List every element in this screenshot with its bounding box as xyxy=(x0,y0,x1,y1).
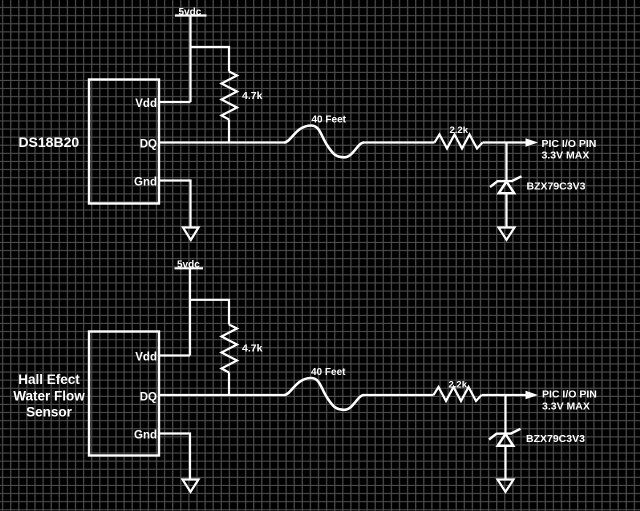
svg-text:DS18B20: DS18B20 xyxy=(18,134,79,150)
wire resistor bottom to DQ xyxy=(228,120,230,143)
svg-text:40 Feet: 40 Feet xyxy=(312,115,347,126)
wire cable to resistor 2.2k (bottom) xyxy=(364,394,434,396)
wire junction down to zener (bottom) xyxy=(504,395,506,434)
zener diode BZX79C3V3 (bottom) triangle xyxy=(498,434,514,446)
zener diode BZX79C3V3 (top) cathode bar xyxy=(490,176,522,187)
arrow output to PIC (top) xyxy=(526,138,539,146)
svg-text:2.2k: 2.2k xyxy=(449,380,468,391)
svg-text:5vdc: 5vdc xyxy=(177,260,200,271)
wire resistor bottom to DQ (bottom) xyxy=(228,373,230,396)
ground (bottom right) xyxy=(498,480,514,492)
svg-text:BZX79C3V3: BZX79C3V3 xyxy=(526,433,585,445)
wire Gnd pin xyxy=(159,181,191,228)
svg-text:5vdc: 5vdc xyxy=(179,7,202,18)
wire DQ pin to cable xyxy=(159,141,284,143)
wire branch to resistor (bottom) xyxy=(190,300,229,325)
svg-text:Vdd: Vdd xyxy=(135,98,157,110)
svg-text:PIC I/O PIN: PIC I/O PIN xyxy=(542,388,597,400)
svg-text:2.2k: 2.2k xyxy=(450,125,469,136)
svg-text:Sensor: Sensor xyxy=(26,405,73,420)
resistor 2.2k (top series) xyxy=(435,135,483,149)
IC U2 Hall sensor box xyxy=(89,332,159,456)
wire to PIC pin arrow xyxy=(483,141,527,143)
power 5vdc (bottom) xyxy=(175,267,204,269)
IC U1 DS18B20 box xyxy=(89,80,159,204)
svg-text:3.3V MAX: 3.3V MAX xyxy=(542,401,590,413)
power 5vdc (top) xyxy=(175,14,207,16)
wire branch to resistor R-4.7k xyxy=(191,47,230,72)
resistor 4.7k (bottom pull-up) xyxy=(222,325,238,373)
resistor 4.7k (top pull-up) xyxy=(222,72,238,120)
wire Vdd pin (bottom) xyxy=(159,354,190,356)
svg-text:BZX79C3V3: BZX79C3V3 xyxy=(527,181,586,193)
wire zener to ground (bottom) xyxy=(504,446,506,480)
wire zener to ground xyxy=(505,193,507,227)
wire Gnd pin (bottom) xyxy=(159,434,190,480)
wire cable to resistor 2.2k xyxy=(364,141,435,143)
ground (top left) xyxy=(183,228,199,241)
svg-text:Water Flow: Water Flow xyxy=(13,388,85,403)
zener diode BZX79C3V3 (top) triangle xyxy=(499,182,515,194)
svg-text:DQ: DQ xyxy=(140,391,157,403)
svg-text:3.3V MAX: 3.3V MAX xyxy=(542,149,590,161)
wire DQ pin to cable (bottom) xyxy=(159,394,284,396)
resistor 2.2k (bottom series) xyxy=(434,387,482,401)
arrow output to PIC (bottom) xyxy=(526,391,539,399)
ground (top right) xyxy=(499,228,515,240)
wire junction down to zener xyxy=(505,143,507,182)
ground (bottom left) xyxy=(183,480,199,492)
svg-text:DQ: DQ xyxy=(140,139,157,151)
wire 40-feet cable squiggle (top) xyxy=(284,126,364,158)
svg-text:4.7k: 4.7k xyxy=(242,342,263,354)
zener diode BZX79C3V3 (bottom) cathode bar xyxy=(489,429,521,440)
wire Vdd pin xyxy=(159,101,191,103)
wire to PIC pin arrow (bottom) xyxy=(482,394,527,396)
wire 5vdc vertical to Vdd (bottom) xyxy=(189,268,191,355)
wire 40-feet cable squiggle (bottom) xyxy=(284,378,364,410)
svg-text:Hall Efect: Hall Efect xyxy=(18,372,80,387)
svg-text:Gnd: Gnd xyxy=(134,177,157,189)
svg-text:Vdd: Vdd xyxy=(135,352,157,364)
svg-text:4.7k: 4.7k xyxy=(242,90,263,102)
svg-text:Gnd: Gnd xyxy=(134,430,157,442)
wire 5vdc vertical to Vdd xyxy=(189,16,191,103)
svg-text:40 Feet: 40 Feet xyxy=(311,367,346,378)
